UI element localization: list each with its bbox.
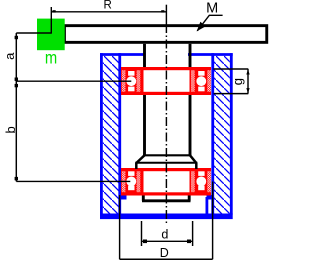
housing bottom plate	[100, 214, 233, 220]
dimension g bottom extension	[214, 93, 249, 95]
dimension d left extension	[141, 221, 143, 246]
svg-text:m: m	[45, 48, 57, 68]
dimension D left extension	[119, 195, 121, 259]
housing top edge left	[100, 53, 146, 56]
lever bar	[64, 26, 266, 43]
bearing seat pillar right	[205, 197, 208, 215]
lower bearing left race block	[121, 168, 144, 196]
shaft shoulder	[143, 154, 192, 156]
dimension g vertical	[247, 69, 249, 94]
g arrow down	[246, 88, 249, 93]
R marker left	[53, 10, 56, 12]
collar right edge	[195, 163, 198, 169]
marker b top	[15, 84, 18, 87]
marker a bottom	[15, 78, 18, 81]
svg-text:b: b	[3, 126, 18, 133]
svg-text:D: D	[160, 246, 169, 260]
upper bearing outer rect	[123, 69, 210, 94]
dimension d line	[142, 240, 193, 242]
shaft lower end left	[142, 196, 145, 201]
upper bearing right race block	[190, 67, 212, 95]
dimension D line	[120, 258, 213, 260]
housing left outer wall line	[100, 53, 103, 214]
center axis line	[165, 5, 167, 24]
shaft right edge	[189, 44, 192, 156]
dimension d right extension	[192, 221, 194, 246]
collar left edge	[135, 163, 138, 169]
shaft left edge	[143, 44, 146, 156]
shaft lower end right	[188, 196, 191, 201]
bearing shoulder left	[119, 195, 127, 200]
taper right	[190, 155, 196, 163]
marker b bottom	[15, 177, 18, 180]
dimension R line	[51, 11, 166, 13]
upper bearing left race block	[121, 67, 144, 95]
g arrow up	[246, 70, 249, 75]
housing right outer wall line	[230, 53, 233, 214]
bearing shoulder right	[207, 195, 215, 200]
svg-text:a: a	[2, 52, 17, 60]
d marker right	[187, 240, 191, 244]
housing right bore line	[211, 53, 214, 214]
R marker right	[161, 10, 164, 12]
svg-text:g: g	[230, 78, 245, 85]
shaft end face	[142, 199, 191, 202]
M leader	[197, 15, 222, 30]
dimension D right extension	[212, 182, 214, 260]
housing right wall hatch	[214, 56, 230, 214]
svg-text:R: R	[103, 0, 111, 11]
svg-text:d: d	[161, 228, 168, 242]
M arrowhead	[197, 22, 206, 32]
lower bearing right race block	[190, 168, 212, 196]
mass m (green square)	[37, 19, 65, 51]
extension line bar center	[16, 32, 51, 34]
lower bearing outer rect	[123, 170, 210, 194]
housing left wall hatch	[103, 56, 119, 214]
R left extension	[50, 7, 52, 34]
extension line upper bearing center	[16, 80, 131, 82]
a-b dimension vertical line	[15, 33, 17, 181]
dimension g top extension	[214, 68, 249, 70]
svg-text:M: M	[206, 0, 218, 16]
taper left	[136, 155, 144, 163]
housing left bore line	[118, 53, 121, 214]
extension line lower bearing center	[16, 180, 130, 182]
marker a top	[15, 36, 18, 39]
d marker left	[143, 240, 147, 244]
collar top line	[135, 162, 197, 164]
housing top edge right	[188, 53, 233, 56]
